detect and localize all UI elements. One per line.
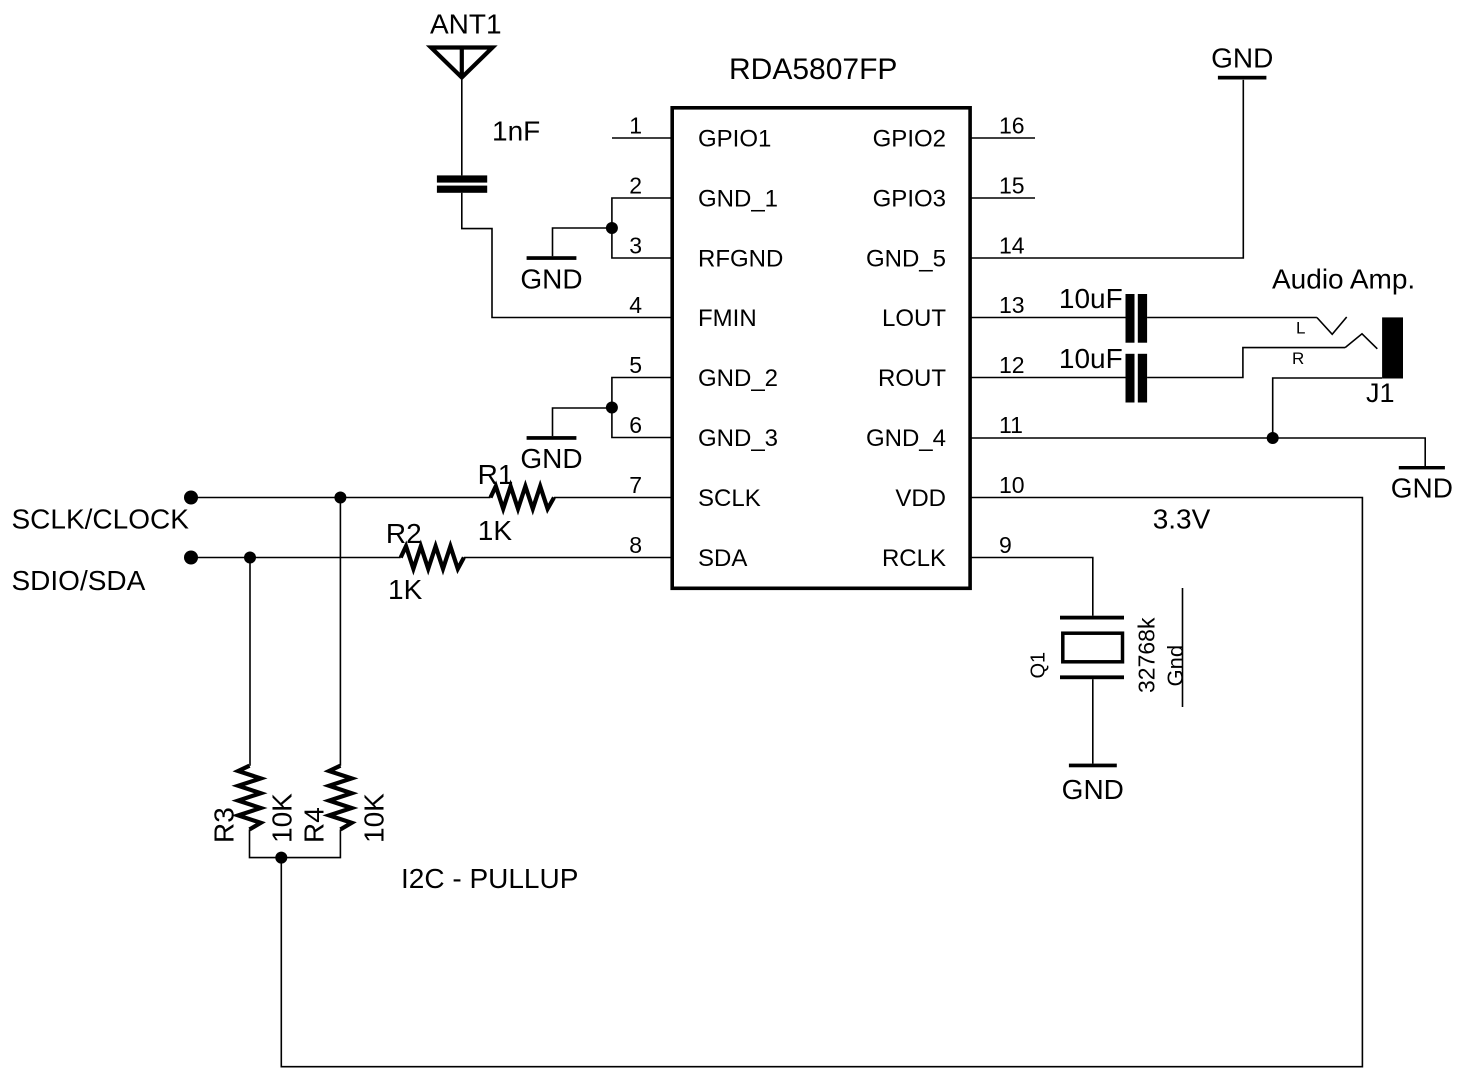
svg-text:GND: GND: [1062, 774, 1124, 805]
terminal dot SCLK: [184, 491, 198, 505]
wire C2 to jack L contact: [1147, 317, 1317, 319]
junction sleeve / pin 11: [1267, 432, 1279, 444]
svg-text:GND_1: GND_1: [698, 186, 778, 213]
wire SCLK junction to R4: [339, 498, 341, 766]
svg-text:RDA5807FP: RDA5807FP: [729, 53, 897, 86]
resistor R4: [329, 766, 352, 830]
svg-text:Q1: Q1: [1028, 652, 1050, 679]
wire pin 13 LOUT to C2: [971, 317, 1126, 319]
wire pins 5-6 tie: [612, 378, 671, 438]
svg-text:5: 5: [629, 352, 642, 378]
pin 1 stub: [612, 137, 671, 139]
wire pins 2-3 tie: [612, 198, 671, 258]
svg-text:Audio Amp.: Audio Amp.: [1272, 264, 1415, 295]
svg-text:3.3V: 3.3V: [1153, 504, 1211, 535]
wire pin 14 to GND: [971, 80, 1243, 258]
svg-text:7: 7: [629, 472, 642, 498]
svg-text:ROUT: ROUT: [878, 365, 946, 392]
capacitor C3: [1126, 354, 1148, 403]
junction SDA / R3: [244, 552, 256, 564]
wire capacitor to pin 4 FMIN: [462, 193, 671, 318]
ground GND (pin 11): [1399, 466, 1445, 469]
svg-text:R4: R4: [299, 807, 330, 843]
ground GND (pin 14, top): [1218, 76, 1267, 80]
svg-text:GND: GND: [520, 264, 582, 295]
wire C3 to jack R contact: [1147, 348, 1345, 378]
wire to GND (pins 5-6): [553, 408, 612, 436]
svg-text:12: 12: [999, 352, 1025, 378]
svg-text:10K: 10K: [359, 793, 390, 843]
svg-text:3: 3: [629, 233, 642, 259]
wire crystal to GND: [1092, 679, 1094, 763]
crystal Q1 body: [1063, 633, 1123, 662]
pin 16 stub: [971, 137, 1035, 139]
svg-text:GND: GND: [1391, 473, 1453, 504]
ground GND (pins 2-3): [527, 256, 577, 260]
svg-text:RCLK: RCLK: [882, 545, 946, 572]
svg-text:GPIO2: GPIO2: [873, 126, 946, 153]
svg-text:VDD: VDD: [895, 485, 946, 512]
junction SCLK / R4: [334, 492, 346, 504]
junction pins 5-6: [606, 402, 618, 414]
junction pins 2-3: [606, 222, 618, 234]
svg-text:GND_4: GND_4: [866, 425, 946, 452]
svg-text:2: 2: [629, 173, 642, 199]
svg-text:1nF: 1nF: [492, 116, 540, 147]
wire antenna to capacitor: [461, 78, 463, 176]
svg-text:10: 10: [999, 472, 1025, 498]
svg-text:ANT1: ANT1: [430, 9, 502, 40]
wire SDA to R2: [191, 557, 401, 559]
resistor R2: [401, 546, 464, 569]
resistor R3: [238, 766, 261, 830]
svg-text:10uF: 10uF: [1059, 343, 1123, 374]
svg-text:1K: 1K: [388, 574, 423, 605]
svg-text:16: 16: [999, 113, 1025, 139]
svg-text:10uF: 10uF: [1059, 283, 1123, 314]
svg-text:J1: J1: [1366, 378, 1395, 408]
junction pullup bottom: [275, 852, 287, 864]
connector J1 jack body: [1382, 317, 1403, 378]
svg-text:GND_2: GND_2: [698, 365, 778, 392]
svg-text:SDIO/SDA: SDIO/SDA: [12, 565, 146, 596]
svg-text:8: 8: [629, 532, 642, 558]
svg-text:GND_5: GND_5: [866, 246, 946, 273]
wire jack sleeve to GND net: [1273, 378, 1382, 438]
svg-text:GND: GND: [520, 443, 582, 474]
svg-text:14: 14: [999, 233, 1025, 259]
wire pin 11 GND_4: [971, 438, 1425, 466]
wire pin 12 ROUT to C3: [971, 377, 1126, 379]
svg-text:FMIN: FMIN: [698, 305, 757, 332]
svg-text:Gnd: Gnd: [1163, 645, 1188, 687]
wire Gnd stub: [1182, 588, 1184, 707]
wire R2 to pin 8: [464, 557, 671, 559]
wire to GND (pins 2-3): [553, 228, 612, 256]
pin 15 stub: [971, 197, 1035, 199]
svg-text:1: 1: [629, 113, 642, 139]
svg-text:GND: GND: [1211, 42, 1273, 73]
antenna ANT1 symbol: [431, 48, 493, 78]
svg-text:I2C - PULLUP: I2C - PULLUP: [401, 863, 578, 894]
svg-text:13: 13: [999, 292, 1025, 318]
svg-text:L: L: [1296, 319, 1305, 338]
IC U1 RDA5807FP box: [672, 108, 970, 589]
svg-text:RFGND: RFGND: [698, 246, 783, 273]
svg-text:GPIO1: GPIO1: [698, 126, 771, 153]
wire SDA junction to R3: [249, 558, 251, 766]
svg-text:1K: 1K: [478, 515, 513, 546]
svg-text:R2: R2: [386, 518, 422, 549]
wire pin 9 RCLK to crystal: [971, 558, 1093, 616]
capacitor 1nF: [437, 175, 487, 192]
terminal dot SDA: [184, 551, 198, 565]
svg-text:10K: 10K: [267, 793, 298, 843]
wire R3/R4 bottom tie: [250, 829, 341, 857]
svg-text:R3: R3: [209, 807, 240, 843]
jack R contact: [1345, 334, 1377, 349]
svg-text:15: 15: [999, 173, 1025, 199]
jack L contact: [1317, 317, 1347, 334]
wire R1 to pin 7: [554, 497, 671, 499]
svg-text:6: 6: [629, 412, 642, 438]
svg-text:9: 9: [999, 532, 1012, 558]
svg-text:32768k: 32768k: [1134, 617, 1160, 693]
crystal Q1 bottom plate: [1060, 675, 1124, 679]
svg-text:LOUT: LOUT: [882, 305, 946, 332]
svg-text:11: 11: [999, 412, 1023, 438]
resistor R1: [491, 486, 555, 509]
ground GND (pins 5-6): [527, 436, 577, 440]
svg-text:SCLK/CLOCK: SCLK/CLOCK: [12, 503, 190, 534]
wire pin 10 VDD loop: [281, 498, 1362, 1067]
svg-text:GND_3: GND_3: [698, 425, 778, 452]
capacitor C2: [1126, 294, 1148, 343]
svg-text:R: R: [1292, 349, 1304, 368]
svg-text:GPIO3: GPIO3: [873, 186, 946, 213]
crystal Q1 top plate: [1060, 616, 1124, 620]
ground GND (crystal): [1069, 764, 1117, 768]
svg-text:SDA: SDA: [698, 545, 747, 572]
svg-text:4: 4: [629, 292, 642, 318]
wire SCLK to R1: [191, 497, 491, 499]
svg-text:SCLK: SCLK: [698, 485, 761, 512]
